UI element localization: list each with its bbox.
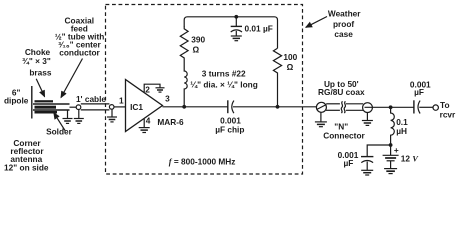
svg-text:2: 2 bbox=[145, 84, 150, 94]
ground (battery) bbox=[384, 169, 397, 174]
ground (tube shield) bbox=[63, 110, 73, 123]
ground (antenna connector) bbox=[74, 109, 84, 123]
arrow (choke label) bbox=[36, 79, 44, 97]
coax tube RG/8U bbox=[326, 103, 340, 105]
capacitor 0.001 uF chip (series) bbox=[228, 100, 234, 113]
wire to IC1 input bbox=[114, 106, 126, 108]
arrow (coaxial feed label) bbox=[61, 59, 83, 98]
svg-text:proof: proof bbox=[333, 19, 354, 29]
wire to bypass cap bbox=[367, 145, 390, 156]
ground (case connector) bbox=[107, 109, 117, 122]
op-amp IC1 triangle bbox=[126, 80, 163, 132]
node (100 ohm junction) bbox=[276, 105, 280, 109]
svg-text:3: 3 bbox=[165, 93, 170, 103]
svg-text:rcvr: rcvr bbox=[440, 109, 456, 119]
svg-text:¼" dia. × ¼" long: ¼" dia. × ¼" long bbox=[190, 80, 258, 90]
resistor R1 390 bbox=[180, 27, 188, 61]
svg-text:12" on side: 12" on side bbox=[4, 163, 49, 173]
ground (N connector) bbox=[315, 112, 327, 126]
svg-text:1: 1 bbox=[119, 95, 124, 105]
wire from coax end to series cap bbox=[365, 106, 414, 108]
choke sleeve (brass) bbox=[35, 100, 58, 113]
svg-text:case: case bbox=[334, 29, 353, 39]
svg-text:Solder: Solder bbox=[46, 127, 73, 137]
top rail bbox=[184, 17, 277, 48]
svg-text:µF chip: µF chip bbox=[215, 125, 244, 135]
ground (pin 2) bbox=[156, 88, 165, 92]
ground (0.01 uF) bbox=[231, 36, 242, 41]
svg-text:RG/8U coax: RG/8U coax bbox=[318, 87, 365, 97]
svg-text:0.01 µF: 0.01 µF bbox=[245, 23, 273, 33]
svg-text:dipole: dipole bbox=[4, 95, 29, 105]
node (supply node) bbox=[389, 143, 393, 147]
svg-text:12 V: 12 V bbox=[401, 153, 420, 163]
coax break squiggles bbox=[341, 101, 342, 113]
center conductor stub bbox=[70, 106, 77, 108]
inductor L3 0.1 uH bbox=[391, 107, 395, 145]
svg-text:µF: µF bbox=[414, 87, 424, 97]
1' cable bbox=[81, 103, 110, 105]
svg-text:To: To bbox=[440, 100, 450, 110]
inductor L1 (3 turns #22) bbox=[184, 60, 187, 107]
pin 2 wire to ground bbox=[144, 84, 160, 92]
svg-text:conductor: conductor bbox=[59, 48, 100, 58]
capacitor 0.001 uF (output series) bbox=[414, 100, 433, 113]
ground (coax end) bbox=[362, 113, 373, 126]
output terminal bbox=[433, 105, 438, 110]
svg-text:µH: µH bbox=[396, 126, 407, 136]
weatherproof case dashed box bbox=[106, 5, 303, 175]
svg-text:f = 800-1000 MHz: f = 800-1000 MHz bbox=[169, 156, 236, 166]
connector circle (antenna end) bbox=[76, 105, 81, 110]
svg-text:µF: µF bbox=[343, 158, 353, 168]
node (bias tee junction) bbox=[389, 105, 393, 109]
N connector circle bbox=[316, 102, 326, 112]
svg-text:4: 4 bbox=[146, 116, 151, 126]
battery 12 V bbox=[383, 145, 399, 168]
svg-text:Ω: Ω bbox=[192, 45, 199, 55]
arrow (solder label) bbox=[54, 113, 65, 131]
svg-text:Weather: Weather bbox=[328, 9, 361, 19]
svg-text:Ω: Ω bbox=[287, 62, 294, 72]
ground (bypass cap) bbox=[361, 170, 373, 175]
svg-text:IC1: IC1 bbox=[130, 102, 143, 112]
svg-text:¾" × 3": ¾" × 3" bbox=[22, 56, 51, 66]
svg-text:+: + bbox=[394, 145, 399, 155]
svg-text:1' cable: 1' cable bbox=[76, 94, 106, 104]
wire after chip cap to case edge bbox=[233, 106, 317, 108]
svg-text:100: 100 bbox=[283, 52, 297, 62]
node (output junction) bbox=[182, 105, 186, 109]
capacitor 0.001 uF (supply bypass) bbox=[361, 157, 373, 170]
arrow (weather proof case label) bbox=[306, 17, 327, 28]
svg-text:3 turns #22: 3 turns #22 bbox=[202, 69, 246, 79]
coax end connector circle bbox=[363, 103, 373, 113]
resistor R2 100 bbox=[273, 48, 281, 107]
main output wire bbox=[163, 106, 228, 108]
node (bypass cap junction) bbox=[234, 15, 238, 19]
dipole element bbox=[31, 86, 33, 119]
coaxial feed tube bbox=[33, 103, 70, 105]
svg-text:390: 390 bbox=[191, 34, 205, 44]
capacitor 0.01 uF bbox=[231, 17, 242, 36]
svg-text:MAR-6: MAR-6 bbox=[157, 117, 184, 127]
svg-text:Connector: Connector bbox=[323, 131, 365, 141]
svg-text:brass: brass bbox=[29, 68, 52, 78]
connector circle (case end) bbox=[109, 105, 114, 110]
ground (pin 4) bbox=[139, 128, 150, 133]
pin 4 wire to ground bbox=[143, 119, 145, 128]
